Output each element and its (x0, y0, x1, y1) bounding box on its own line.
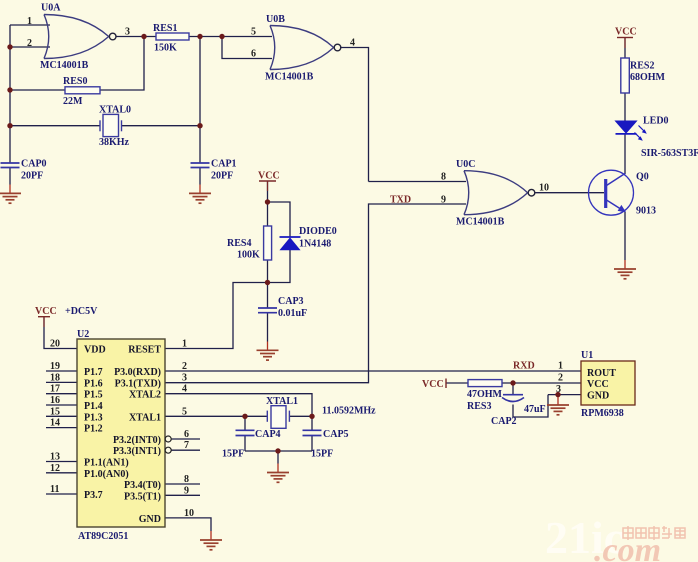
svg-text:VCC: VCC (615, 27, 637, 38)
bubble pin7 (165, 447, 171, 453)
wire U0A pin2 (10, 46, 50, 48)
resistor RES4 (264, 226, 272, 260)
node RES1 out (197, 34, 202, 39)
wire pin5 XTAL1 (165, 415, 267, 417)
svg-text:150K: 150K (154, 43, 177, 54)
wire CAP5 stems (311, 416, 313, 430)
power VCC top-right (615, 27, 637, 49)
svg-text:P1.1(AN1): P1.1(AN1) (84, 458, 129, 469)
wire RES1 to U0B pin5 (189, 36, 272, 38)
svg-text:38KHz: 38KHz (99, 137, 130, 148)
svg-text:11.0592MHz: 11.0592MHz (322, 406, 376, 417)
node RES0/rail (7, 87, 12, 92)
svg-text:9: 9 (184, 485, 189, 496)
capacitor CAP0 (1, 163, 20, 168)
svg-text:20: 20 (50, 339, 60, 350)
capacitor CAP2 electrolytic (502, 395, 524, 402)
svg-text:P1.2: P1.2 (84, 424, 103, 435)
svg-text:XTAL0: XTAL0 (99, 105, 131, 116)
capacitor CAP3 (258, 308, 277, 313)
IC U2 AT89C2051 (77, 339, 165, 527)
crystal XTAL0 (100, 114, 122, 136)
svg-text:RES3: RES3 (467, 401, 491, 412)
svg-text:XTAL2: XTAL2 (129, 390, 161, 401)
wire pin11 (46, 493, 77, 495)
node VCC/RES4/diode (265, 199, 270, 204)
svg-text:P3.3(INT1): P3.3(INT1) (113, 446, 161, 457)
svg-text:P3.0(RXD): P3.0(RXD) (114, 367, 161, 378)
svg-text:9: 9 (441, 195, 446, 206)
resistor RES3 (468, 380, 502, 387)
wire CAP2 bottom to pin3 (513, 395, 548, 417)
svg-text:19: 19 (50, 361, 60, 372)
svg-text:+DC5V: +DC5V (65, 306, 98, 317)
wire VCC to RES4 (267, 181, 269, 226)
svg-text:U0A: U0A (41, 3, 61, 14)
svg-text:P3.2(INT0): P3.2(INT0) (113, 435, 161, 446)
capacitor CAP5 (303, 430, 322, 435)
svg-text:2: 2 (558, 373, 563, 384)
wire U0C pin8 (369, 181, 467, 183)
svg-text:6: 6 (184, 429, 189, 440)
svg-text:VCC: VCC (587, 379, 609, 390)
svg-text:RPM6938: RPM6938 (581, 408, 624, 419)
svg-text:P1.4: P1.4 (84, 401, 103, 412)
wire RXD net pin2 (165, 370, 581, 372)
svg-text:TXD: TXD (390, 195, 411, 206)
wire U0A pin1 (10, 24, 50, 26)
wire CAP1 rail (199, 37, 201, 164)
svg-text:CAP3: CAP3 (278, 296, 304, 307)
svg-text:CAP0: CAP0 (21, 159, 47, 170)
wire VCC to RES3 (446, 382, 468, 384)
wire U0C pin9 TXD (165, 204, 466, 383)
capacitor CAP4 (236, 430, 255, 435)
wire U0C output node 10 (535, 192, 604, 194)
resistor RES2 (621, 58, 630, 93)
svg-text:1: 1 (182, 339, 187, 350)
ground at U1 pin3 (547, 397, 569, 415)
svg-text:13: 13 (50, 452, 60, 463)
svg-text:4: 4 (182, 384, 187, 395)
svg-text:16: 16 (50, 395, 60, 406)
svg-text:7: 7 (184, 440, 189, 451)
svg-text:SIR-563ST3F: SIR-563ST3F (641, 148, 698, 159)
wire pin8 (165, 483, 200, 485)
svg-text:20PF: 20PF (211, 171, 233, 182)
svg-text:GND: GND (139, 514, 161, 525)
wire pin6 (171, 438, 200, 440)
wire left rail (9, 25, 11, 163)
wire pin18 (46, 381, 77, 383)
svg-text:5: 5 (251, 27, 256, 38)
ground at CAP0 (0, 185, 21, 204)
node XTAL1 right (309, 414, 314, 419)
svg-text:VCC: VCC (35, 306, 57, 317)
wire pin7 (171, 449, 200, 451)
wire pin16 (46, 404, 77, 406)
power VCC at RES3 (422, 379, 446, 391)
wire VCC to RES2 (624, 38, 626, 59)
svg-text:.com: .com (594, 532, 661, 562)
power VCC middle (258, 171, 280, 192)
NOR gate U0B (270, 26, 341, 70)
svg-text:MC14001B: MC14001B (265, 72, 314, 83)
svg-text:P3.7: P3.7 (84, 490, 103, 501)
wire Q0 emitter down (624, 212, 626, 261)
svg-text:15PF: 15PF (222, 449, 244, 460)
crystal XTAL1 (267, 406, 289, 429)
node U1 GND (555, 392, 560, 397)
svg-text:P1.6: P1.6 (84, 378, 103, 389)
svg-text:RESET: RESET (128, 345, 161, 356)
wire pin17 (46, 393, 77, 395)
svg-text:100K: 100K (237, 250, 260, 261)
svg-text:CAP5: CAP5 (323, 429, 349, 440)
wire pin13 (46, 461, 77, 463)
svg-text:AT89C2051: AT89C2051 (78, 531, 128, 542)
svg-text:VCC: VCC (258, 171, 280, 182)
bubble pin6 (165, 436, 171, 442)
svg-text:10: 10 (539, 183, 549, 194)
svg-text:1N4148: 1N4148 (299, 239, 331, 250)
svg-text:18: 18 (50, 372, 60, 383)
svg-text:8: 8 (441, 172, 446, 183)
IC U1 RPM6938 (581, 361, 635, 405)
svg-text:CAP1: CAP1 (211, 159, 237, 170)
svg-text:14: 14 (50, 418, 60, 429)
svg-text:MC14001B: MC14001B (456, 217, 505, 228)
wire U1 pin3 (548, 394, 581, 396)
svg-text:DIODE0: DIODE0 (299, 226, 337, 237)
svg-text:6: 6 (251, 49, 256, 60)
diode DIODE0 1N4148 (280, 237, 301, 250)
node XTAL1 left (242, 414, 247, 419)
svg-text:P3.4(T0): P3.4(T0) (124, 480, 161, 491)
wire pin10 GND (165, 518, 211, 531)
ground at Q0 emitter (614, 260, 636, 279)
node RESET/RES4/CAP3 (265, 280, 270, 285)
wire VCC to VDD pin20 (44, 317, 77, 349)
svg-text:22M: 22M (63, 96, 83, 107)
wire RES3 to U1 pin2 (502, 382, 581, 384)
svg-text:RXD: RXD (513, 361, 535, 372)
ground at CAP1 (189, 185, 211, 204)
svg-text:4: 4 (350, 38, 355, 49)
svg-text:20PF: 20PF (21, 171, 43, 182)
svg-text:CAP4: CAP4 (255, 429, 281, 440)
NOR gate U0C (464, 171, 535, 215)
svg-text:ROUT: ROUT (587, 368, 616, 379)
svg-text:68OHM: 68OHM (630, 72, 666, 83)
NOR gate U0A (44, 15, 116, 59)
wire U0B pin6 (222, 37, 272, 59)
wire xtal ground stem (277, 451, 279, 464)
svg-text:15PF: 15PF (311, 449, 333, 460)
svg-text:3: 3 (182, 372, 187, 383)
svg-text:VDD: VDD (84, 345, 106, 356)
svg-text:47uF: 47uF (524, 404, 546, 415)
wire RES2 to LED0 (624, 93, 626, 121)
wire caps bottom (245, 450, 312, 452)
svg-text:10: 10 (184, 508, 194, 519)
svg-text:P1.5: P1.5 (84, 390, 103, 401)
node caps ground (275, 448, 280, 453)
node XTAL0/rail (7, 123, 12, 128)
resistor RES0 (65, 87, 100, 94)
capacitor CAP1 (191, 163, 210, 168)
svg-text:P3.1(TXD): P3.1(TXD) (115, 378, 161, 389)
wire RES4 bottom (267, 260, 269, 308)
resistor RES1 (156, 33, 189, 40)
svg-text:LED0: LED0 (643, 116, 669, 127)
svg-text:U1: U1 (581, 350, 593, 361)
wire RESET net (165, 283, 268, 349)
wire pin19 (46, 370, 77, 372)
ground at U2 GND pin10 (200, 531, 222, 550)
wire U0A output node 3 (117, 36, 157, 38)
node 3/RES0 (141, 34, 146, 39)
wire CAP3 lower stem (267, 313, 269, 342)
node XTAL0/CAP1 (197, 123, 202, 128)
svg-text:P1.3: P1.3 (84, 412, 103, 423)
svg-text:P1.0(AN0): P1.0(AN0) (84, 469, 129, 480)
svg-text:RES1: RES1 (153, 23, 177, 34)
node pin2/rail (7, 44, 12, 49)
wire U0B output node 4 (340, 48, 369, 182)
power VCC at U2 (35, 306, 57, 327)
wire pin14 (46, 427, 77, 429)
wire CAP0 lower stem (9, 168, 11, 185)
svg-text:U0C: U0C (456, 159, 475, 170)
wire pin4 XTAL2 (165, 394, 312, 417)
svg-text:CAP2: CAP2 (491, 416, 517, 427)
wire diode branch bottom (268, 250, 291, 283)
svg-text:XTAL1: XTAL1 (129, 412, 161, 423)
svg-text:3: 3 (556, 384, 561, 395)
svg-text:U2: U2 (77, 329, 89, 340)
ground at XTAL caps (267, 464, 289, 483)
svg-text:12: 12 (50, 463, 60, 474)
wire pin9 (165, 494, 200, 496)
wire CAP4 stems (244, 416, 246, 430)
svg-text:P3.5(T1): P3.5(T1) (124, 491, 161, 502)
wire XTAL0 right (122, 125, 201, 127)
svg-text:1: 1 (558, 361, 563, 372)
wire XTAL0 left (10, 125, 100, 127)
LED LED0 (616, 121, 647, 141)
wire RES0 right (100, 37, 144, 91)
wire pin15 (46, 415, 77, 417)
svg-text:Q0: Q0 (636, 172, 649, 183)
svg-text:U0B: U0B (266, 14, 285, 25)
svg-text:P1.7: P1.7 (84, 367, 103, 378)
wire pin12 (46, 472, 77, 474)
svg-text:11: 11 (50, 484, 59, 495)
watermark 21ic.com (545, 512, 685, 562)
svg-text:8: 8 (184, 474, 189, 485)
wire CAP1 lower stem (199, 168, 201, 185)
node U0B inputs (219, 34, 224, 39)
svg-text:MC14001B: MC14001B (40, 60, 89, 71)
svg-text:RES2: RES2 (630, 61, 654, 72)
svg-text:17: 17 (50, 384, 60, 395)
svg-text:2: 2 (182, 361, 187, 372)
ground at CAP3 (257, 342, 279, 361)
svg-text:GND: GND (587, 391, 609, 402)
svg-text:VCC: VCC (422, 379, 444, 390)
svg-text:1: 1 (27, 16, 32, 27)
svg-text:47OHM: 47OHM (467, 389, 503, 400)
transistor Q0 9013 (589, 170, 634, 215)
wire LED0 to Q0 collector (624, 135, 626, 175)
svg-text:3: 3 (125, 27, 130, 38)
node RES3/CAP2 (510, 380, 515, 385)
svg-text:XTAL1: XTAL1 (266, 396, 298, 407)
svg-text:15: 15 (50, 406, 60, 417)
svg-text:2: 2 (27, 38, 32, 49)
svg-text:5: 5 (182, 406, 187, 417)
wire CAP2 top stem (512, 383, 514, 394)
svg-text:RES4: RES4 (227, 238, 251, 249)
wire RES0 left (10, 89, 65, 91)
wire diode branch top (268, 202, 291, 237)
wire XTAL1 right (289, 415, 312, 417)
svg-text:0.01uF: 0.01uF (278, 308, 307, 319)
svg-text:9013: 9013 (636, 206, 656, 217)
svg-text:RES0: RES0 (63, 76, 87, 87)
